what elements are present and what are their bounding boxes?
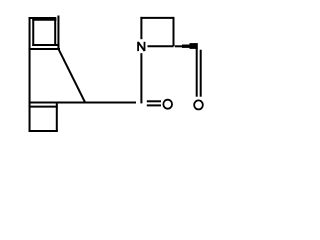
wire: [29, 48, 60, 50]
wire: [196, 48, 198, 96]
wire: [140, 17, 173, 19]
wire: [32, 19, 34, 46]
wire: [29, 17, 31, 132]
wire: [56, 102, 58, 132]
wire: [32, 19, 56, 21]
wire: [140, 17, 142, 39]
wire: [29, 130, 58, 132]
wire: [32, 44, 59, 46]
node O (vector glyph): [163, 100, 172, 109]
wire: [29, 106, 58, 108]
wedge bond (stepped bold wedge): [175, 43, 198, 49]
wire: [59, 49, 85, 102]
wire: [29, 101, 136, 103]
wire: [54, 17, 56, 46]
wire: [173, 17, 175, 46]
wire: [147, 104, 161, 106]
node O (vector glyph): [194, 100, 203, 109]
wire: [148, 45, 174, 47]
wire: [140, 53, 142, 103]
wire: [147, 100, 161, 102]
node N (vector glyph): [138, 42, 144, 51]
wire: [29, 17, 57, 19]
wire: [57, 16, 59, 51]
wire: [200, 50, 202, 97]
